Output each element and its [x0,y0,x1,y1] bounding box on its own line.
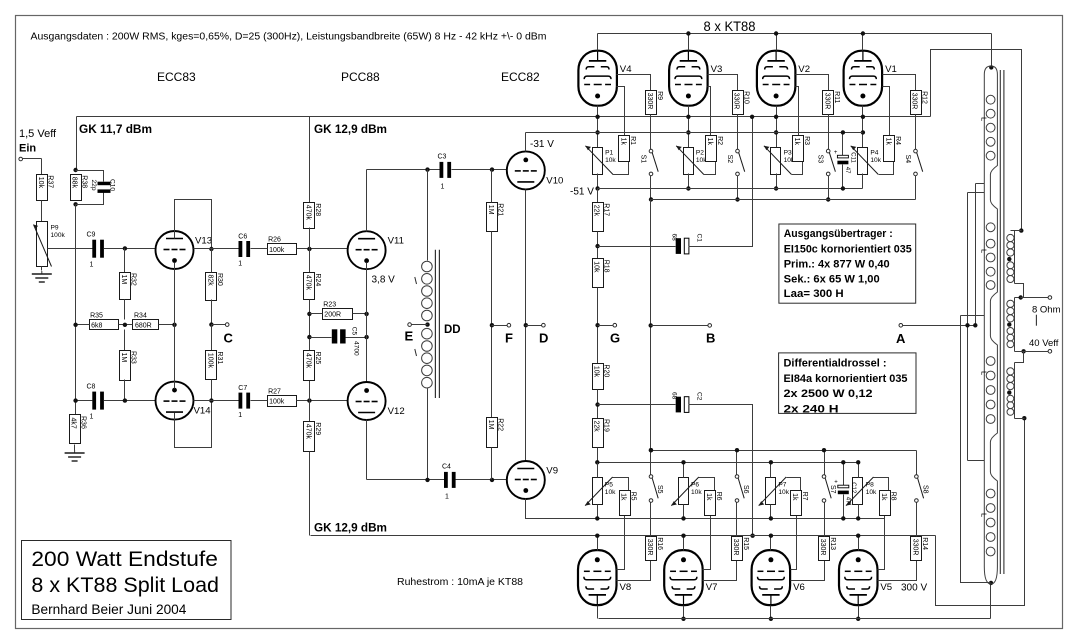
svg-text:C8: C8 [87,384,96,391]
capacitor C6 [238,234,250,268]
choke DD phase mark lower [415,349,417,356]
svg-text:C5: C5 [350,327,357,336]
resistor R14 330R [911,537,929,561]
wire bus corner to S8 [916,451,918,475]
svg-text:470k: 470k [305,275,312,291]
svg-text:40 Veff: 40 Veff [1029,338,1059,349]
node R23 left [307,312,311,316]
node terminal G [595,323,599,327]
secondary coil 5 [1007,368,1014,390]
node R25/R29/V12 grid [307,398,311,402]
node C1 cathode bus [750,115,754,119]
node C2 junction [595,402,599,406]
svg-text:GK 12,9 dBm: GK 12,9 dBm [314,521,387,535]
transformer secondary spine pair 1 [1014,231,1016,284]
svg-text:R19: R19 [602,419,609,432]
node lower rail R19 [595,460,599,464]
resistor R12 330R [911,91,928,115]
wire P6 to bias bus [683,505,685,519]
node V13/V14 cathodes [172,323,176,327]
transformer core lines [999,70,1001,574]
resistor R27 [268,389,297,407]
node A tap1b [965,323,969,327]
terminal 8 Ohm [1048,296,1052,300]
resistor R5 1k [620,491,637,516]
electrolytic capacitor C11 column [842,133,844,156]
wire R25 to R29 [309,381,311,422]
potentiometer P4 [851,146,882,175]
triode V13 [156,231,213,269]
wire bus to S6 [736,451,738,475]
potentiometer P8 [846,477,877,506]
node lower rail P6 [681,460,685,464]
svg-text:R35: R35 [90,313,103,320]
wire V6 screen lead to R13 [791,561,825,581]
resistor R34 [133,313,159,330]
resistor R17 [593,203,610,232]
node secondary coils 1-2 [1007,257,1011,261]
wire upper cathode bus feedback loop [931,50,1022,231]
wire KT88 plate bus upper [598,33,992,35]
svg-text:47: 47 [845,497,851,504]
wire R37 to P9 [41,201,43,223]
pentode V8 KT88 [578,550,631,605]
potentiometer P7 [759,477,790,506]
wire to terminal F [492,325,508,327]
wire R31 to V14 anode node [211,380,213,401]
svg-text:R15: R15 [742,537,749,550]
svg-text:88k: 88k [71,177,78,189]
svg-text:V1: V1 [885,64,897,75]
svg-text:P8: P8 [866,482,874,489]
resistor R10 330R [733,91,750,115]
svg-text:1k: 1k [705,493,712,501]
resistor R26 [268,237,297,255]
transformer secondary spine pair 2 [1014,298,1016,352]
node B column lower [649,448,653,452]
svg-text:Ausgangsübertrager :: Ausgangsübertrager : [784,228,893,240]
wire to terminal B [651,325,709,327]
wire tap1a down to A [975,184,977,326]
wire R35 to R34 [119,324,133,326]
secondary coil 3 [1007,300,1014,322]
node -51V bus P3 [774,186,778,190]
svg-text:R18: R18 [602,260,609,273]
node switch bus S7 [822,448,826,452]
choke DD winding upper [427,170,429,261]
wire rail to P5 [597,463,599,478]
wire bus to S5 [650,451,652,475]
wire R27 to V12 grid [297,400,349,402]
wire input to R37 [23,158,42,160]
wire terminal E to DD [412,324,428,326]
wire -31V rail [526,132,863,134]
wire primary tap 1b [968,192,985,194]
wire secondary pair2 to pair3 [1015,352,1024,363]
wire switch common bus upper [651,199,916,201]
terminal D [542,323,546,327]
wire to R23 [310,313,323,315]
transformer secondary spine pair 3 [1014,363,1016,419]
terminal C [225,323,229,327]
wire P9 wiper to C9 [48,248,93,250]
switch S2 [726,149,745,175]
node C12 top [841,460,845,464]
wire V13 anode loop [175,200,212,249]
svg-text:300 V: 300 V [901,583,927,594]
svg-text:V8: V8 [620,582,632,593]
svg-text:L: L [980,117,989,121]
switch S5 [649,475,663,503]
wire P1 tap to R1 [613,161,629,175]
wire P6 tap to R6 [699,478,715,491]
svg-text:200R: 200R [324,312,341,319]
node terminal F [490,323,494,327]
node A tap1a [973,323,977,327]
wire plate bus to V3 [688,34,690,51]
triode V10 [507,151,564,189]
node lower rail P7 [769,460,773,464]
svg-text:R10: R10 [742,91,749,104]
choke DD core lines [434,250,436,398]
node R28/R24/V11 grid [307,247,311,251]
node DD bottom [425,478,429,482]
svg-text:4700: 4700 [352,341,359,356]
wire -51V bias bus [598,188,863,190]
svg-text:G: G [610,331,620,346]
choke DD upper coils [422,261,433,321]
resistor R2 1k [706,136,723,162]
electrolytic capacitor C12 column [843,463,845,486]
svg-text:C6: C6 [238,234,247,241]
svg-text:10k: 10k [37,177,44,189]
svg-text:A: A [896,331,906,346]
resistor R25 [304,351,322,381]
node 8 Ohm tap [1019,295,1023,299]
electrolytic capacitor C12 [834,480,856,504]
triode V12 [348,382,405,420]
resistor R3 1k [793,136,810,162]
info box Differentialdrossel [779,353,916,415]
wire lower bias bus [529,518,885,520]
node plate bus V3 [686,31,690,35]
terminal E [408,323,412,327]
svg-text:EI84a kornorientiert 035: EI84a kornorientiert 035 [784,373,908,385]
svg-text:1: 1 [238,261,242,268]
svg-text:330R: 330R [733,93,740,110]
svg-text:S8: S8 [921,485,928,494]
svg-text:100k: 100k [269,398,285,405]
resistor R16 330R [646,537,663,561]
svg-text:GK 11,7 dBm: GK 11,7 dBm [79,122,152,136]
svg-text:1k: 1k [791,493,798,501]
pentode V7 KT88 [664,550,717,605]
wire secondary bottom lead [1015,418,1025,420]
node cathode bus V1 [861,115,865,119]
wire V4 cathode down [597,106,599,148]
svg-text:R22: R22 [497,418,504,431]
resistor R9 330R [646,91,663,115]
node secondary coils 5-6 [1007,390,1011,394]
wire R33 to C8 row [124,380,126,401]
svg-text:6k8: 6k8 [91,323,102,330]
svg-text:330R: 330R [823,93,830,110]
node cathode bus V5 [856,534,860,538]
svg-text:C2: C2 [696,392,703,401]
wire R12 to switch S4 [915,115,917,150]
node terminal B [649,323,653,327]
wire switch S5 to R16 [650,503,652,537]
node switch bus S6 [735,448,739,452]
wire plate bus to transformer top [991,34,993,68]
wire plate bus lower to transformer bottom [990,583,992,619]
node C5 left [307,335,311,339]
node R38 top [73,168,77,172]
wire to C2 [598,404,676,406]
node lower rail P8 [856,460,860,464]
wire -51V to R17 [597,189,599,203]
svg-text:1: 1 [238,412,242,419]
svg-text:R30: R30 [216,273,223,286]
svg-text:P9: P9 [51,225,59,232]
wire C12 to bias bus [843,495,845,519]
wire C1 to cathode bus [689,117,753,247]
pentode V4 KT88 [578,51,632,106]
svg-text:R21: R21 [497,203,504,216]
capacitor C10 parallel loop wires [76,171,104,182]
wire C9 to V13 grid [104,248,156,250]
node C11 bottom [841,186,845,190]
svg-text:Laa= 300 H: Laa= 300 H [784,288,844,300]
wire P2 tap to R2 [704,161,716,175]
wire lower -31V rail [598,462,859,464]
svg-text:-31 V: -31 V [530,139,554,150]
svg-text:R6: R6 [715,492,722,501]
wire S4 to bus corner [915,176,917,200]
wire feedback column [75,205,77,415]
triode V11 [348,231,404,269]
wire tap1b to tap3 [967,193,969,461]
wire S3 to bus [828,176,830,200]
svg-text:Ruhestrom : 10mA je KT88: Ruhestrom : 10mA je KT88 [397,576,523,588]
wire V3 cathode down [688,106,690,148]
wire C8 to V14 grid [104,400,156,402]
svg-text:V4: V4 [620,64,632,75]
transformer T1 primary winding outline [984,66,997,584]
wire node C to R31 [211,325,213,351]
choke DD lower coils [422,328,433,388]
wire P7 to bias bus [770,505,772,519]
svg-text:10k: 10k [778,489,789,496]
node C11 top [841,130,845,134]
node R32/R33/R34/R35 [123,323,127,327]
node cathode bus V6 [769,534,773,538]
wire P9 to ground [41,267,43,271]
wire V2 cathode down [776,106,778,148]
secondary coil 1 [1007,234,1014,256]
wire C6 to R26 [251,248,268,250]
wire V11 anode to C3 [367,169,440,171]
resistor R4 1k [884,136,902,162]
capacitor C9 [87,232,104,269]
wire R19 to lower rail [597,448,599,463]
wire to R32 [124,249,126,273]
input terminal Ein [19,157,23,161]
svg-text:10k: 10k [605,489,616,496]
resistor R8 1k [880,491,897,516]
pentode V3 KT88 [669,51,722,106]
wire V8 plate down [597,606,599,619]
wire V10 anode to -31V rail [526,132,598,134]
svg-text:68: 68 [671,234,678,242]
svg-text:1k: 1k [620,493,627,501]
capacitor C4 [442,464,456,501]
wire switch common bus lower [651,450,917,452]
resistor R36 [70,415,87,444]
resistor R11 330R [823,91,841,115]
wire lower cathode bus feedback loop [936,419,1025,606]
wire GK bus down to R38 [76,117,78,171]
wire to C1 [598,246,676,248]
wire plate bus to V1 [862,34,864,51]
svg-text:R13: R13 [829,537,836,550]
terminal 40 Veff [1048,350,1052,354]
wire R22 to V9 grid wire [491,448,493,480]
svg-text:R36: R36 [79,416,86,429]
wire C7 to R27 [251,400,268,402]
pentode V2 KT88 [757,51,810,106]
svg-text:330R: 330R [732,539,739,556]
svg-text:47: 47 [844,167,850,174]
wire P3 tap to R3 [792,161,803,175]
resistor R28 [304,203,322,229]
wire to R33 [124,330,126,351]
pentode V5 KT88 [839,550,892,605]
capacitor C2 68n [671,392,703,412]
capacitor C3 [438,154,452,191]
svg-text:68: 68 [671,392,678,400]
resistor R1 1k [619,136,637,162]
svg-text:470k: 470k [305,353,312,369]
wire V8 screen lead to R16 [617,561,651,581]
svg-text:8 x KT88: 8 x KT88 [704,19,756,34]
electrolytic capacitor C11 [834,150,856,174]
svg-text:Sek.: 6x 65 W 1,00: Sek.: 6x 65 W 1,00 [784,273,880,285]
potentiometer P5 [585,477,616,506]
wire P5 to bias bus [597,505,599,519]
resistor R31 [206,351,224,380]
wire V6 grid lead to R7 [791,516,797,570]
wire to terminal 8 Ohm [1021,297,1049,299]
wire switch S6 to R15 [736,503,738,537]
wire P8 tap to R8 [874,478,889,491]
svg-text:P3: P3 [784,149,792,156]
secondary coil 6 [1007,395,1014,415]
svg-text:22k: 22k [593,421,600,433]
wire cathode feedback bus lower [311,535,936,537]
wire to R35 [76,324,90,326]
svg-text:10k: 10k [866,489,877,496]
wire R18 to R20 [597,288,599,364]
node bias bus P8 [856,516,860,520]
capacitor C10 [90,179,116,193]
resistor R24 [304,273,322,300]
svg-text:1M: 1M [487,420,494,430]
switch S7 [822,475,836,503]
wire P5 tap to R5 [613,478,629,491]
potentiometer P2 [676,146,707,175]
svg-text:22k: 22k [593,205,600,217]
node -51V bus P2 [686,186,690,190]
svg-text:22p: 22p [90,180,97,191]
resistor R18 [593,259,610,288]
wire terminal A to taps [903,325,976,327]
capacitor C1 68n [671,234,703,254]
wire V11 anode up [366,170,368,232]
wire to C8 [76,400,93,402]
resistor R32 [120,273,137,300]
wire plate bus to V2 [776,34,778,51]
wire to terminal G [598,325,613,327]
svg-text:1: 1 [90,414,94,421]
wire R21 to R22 [491,232,493,418]
resistor R6 1k [705,491,722,516]
svg-text:330R: 330R [646,93,653,110]
wire switch bus to lower switch bus (B column) [650,200,652,451]
svg-text:L: L [980,371,989,375]
wire C4 to V9 grid [456,479,508,481]
svg-text:F: F [505,331,513,346]
svg-text:Prim.: 4x 877 W 0,40: Prim.: 4x 877 W 0,40 [784,259,890,271]
svg-text:1,5 Veff: 1,5 Veff [19,128,57,140]
wire V13 anode to C6 [194,248,239,250]
wire V2 screen lead to R11 [796,75,829,91]
wire bus corner to S4 [915,176,917,200]
node R38 bottom [73,202,77,206]
wire V10 anode up [525,133,527,152]
svg-text:200 Watt Endstufe: 200 Watt Endstufe [31,547,218,571]
node switch bus S5 [649,448,653,452]
node secondary top [1019,228,1023,232]
node switch bus S2 [735,197,739,201]
wire cathode bus to V6 [770,536,772,551]
triode V14 [156,382,212,420]
wire tap2 to primary bottom [961,316,991,583]
wire V11 cathode to V12 anode [366,263,368,383]
svg-text:1: 1 [90,262,94,269]
svg-text:470k: 470k [305,205,312,221]
node bias bus P6 [681,516,685,520]
svg-text:S6: S6 [742,485,749,494]
wire V2 grid lead to R3 [796,87,799,136]
wire C11 to -51V bus [842,165,844,189]
wire P8 to bias bus [858,505,860,519]
svg-text:R26: R26 [268,237,281,244]
wire primary tap 1a [976,183,985,185]
node -31V rail P2 [686,130,690,134]
svg-text:1: 1 [445,494,449,501]
node V13 anode [209,247,213,251]
node switch bus S1 [649,197,653,201]
svg-text:1k: 1k [880,493,887,501]
svg-text:1k: 1k [884,138,891,146]
svg-text:R16: R16 [656,537,663,550]
svg-text:100k: 100k [51,232,66,239]
svg-text:R25: R25 [314,352,321,365]
wire to R30 [211,249,213,273]
wire switch S8 to R14 [916,503,918,537]
wire V3 screen lead to R10 [708,75,738,91]
